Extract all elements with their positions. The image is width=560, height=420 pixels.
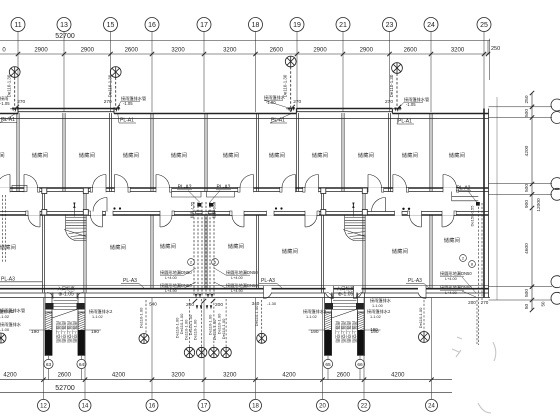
building top inner wall line xyxy=(0,118,489,120)
riser id bubbles xyxy=(188,259,195,266)
svg-text:500: 500 xyxy=(524,289,530,297)
bottom axis bubble 20 xyxy=(317,399,329,411)
riser arrows at 290.7 xyxy=(288,108,290,112)
svg-text:16: 16 xyxy=(148,22,156,29)
grid line 25 xyxy=(483,32,485,113)
upper room wall at grid 24 xyxy=(429,113,431,192)
terrace door opening 333.5 xyxy=(326,286,334,294)
svg-text:De110-1.30: De110-1.30 xyxy=(283,74,288,97)
axis bubble 21 xyxy=(336,18,350,32)
dim 2600 between 23-24 xyxy=(387,52,391,56)
left edge corridor alcove xyxy=(12,186,27,192)
svg-text:540: 540 xyxy=(149,302,157,307)
axis bubble 11 xyxy=(11,18,25,32)
stairwell east wall right xyxy=(362,192,364,293)
east single drain stack xyxy=(261,300,263,333)
upper room wall at grid 15 xyxy=(108,113,110,192)
door opening upper room hinge 443 xyxy=(443,187,457,192)
svg-text:储藏间: 储藏间 xyxy=(171,151,187,159)
south wall lower rooms xyxy=(0,288,489,290)
svg-text:52700: 52700 xyxy=(55,385,75,392)
svg-text:L+4.90: L+4.90 xyxy=(445,291,457,295)
grid line 24 xyxy=(430,32,432,113)
svg-text:⊕-1.05: ⊕-1.05 xyxy=(58,292,74,298)
overall dim line 52700 top xyxy=(0,40,490,42)
dim 2900 between 19-21 xyxy=(295,52,299,56)
small bubbles 63 64 65 66 xyxy=(48,356,50,360)
svg-text:14: 14 xyxy=(82,404,89,410)
svg-text:3200: 3200 xyxy=(171,373,185,379)
door lower room hinge 305 xyxy=(304,211,306,227)
upper room wall at grid 19 xyxy=(295,113,297,192)
svg-text:270: 270 xyxy=(385,99,393,105)
terrace outer line xyxy=(0,297,490,299)
door opening upper room hinge 295.5 xyxy=(282,187,296,192)
svg-text:52700: 52700 xyxy=(55,33,75,40)
upper room wall at grid 18 xyxy=(255,113,257,192)
riser leader diagonals xyxy=(188,191,200,203)
bottom dim 4200 xyxy=(41,378,45,382)
svg-text:PL-A1: PL-A1 xyxy=(271,118,285,124)
svg-text:66: 66 xyxy=(357,362,363,368)
axis bubble 15 xyxy=(104,18,118,32)
svg-text:PL-A3: PL-A3 xyxy=(123,278,137,284)
bottom axis bubble 22 xyxy=(358,399,370,411)
svg-text:标高-1.55: 标高-1.55 xyxy=(212,202,217,218)
door upper room hinge 253.5 xyxy=(253,175,255,193)
svg-text:接圆形地漏DN50: 接圆形地漏DN50 xyxy=(160,269,192,276)
svg-text:2600: 2600 xyxy=(270,48,284,54)
stairwell east wall left xyxy=(83,192,85,293)
svg-text:4200: 4200 xyxy=(524,145,530,156)
svg-text:储藏间: 储藏间 xyxy=(282,247,298,255)
axis bubble 18 xyxy=(249,18,263,32)
svg-text:200: 200 xyxy=(215,302,223,308)
stair break line at 323.6 xyxy=(343,230,366,237)
svg-text:1-1.02: 1-1.02 xyxy=(92,315,103,319)
porch door arc east 324.5 xyxy=(357,293,363,299)
svg-text:De110-1.30: De110-1.30 xyxy=(389,74,394,97)
door lower room hinge 40 xyxy=(39,211,41,227)
svg-text:L+4.00: L+4.00 xyxy=(231,276,243,280)
riser wall stub at 14.7 xyxy=(10,108,19,110)
right end riser basin xyxy=(452,192,479,201)
lower room wall x=206 xyxy=(204,215,206,289)
stair winder treads at 323.6 xyxy=(345,231,366,241)
bottom grid line 18 xyxy=(255,298,257,400)
svg-text:270: 270 xyxy=(481,300,489,305)
svg-text:4200: 4200 xyxy=(391,373,405,379)
cleanout circles center row xyxy=(184,347,194,357)
svg-text:-1.05: -1.05 xyxy=(406,102,416,107)
door lower room hinge 244 xyxy=(243,211,245,227)
svg-text:12: 12 xyxy=(40,404,47,410)
svg-text:间: 间 xyxy=(0,151,5,159)
svg-text:接雨篷排水2: 接雨篷排水2 xyxy=(0,308,15,315)
svg-text:接圆形地漏DN50: 接圆形地漏DN50 xyxy=(226,269,258,276)
axis bubble 16 xyxy=(145,18,159,32)
svg-text:雨篷上空雨: 雨篷上空雨 xyxy=(55,321,62,343)
svg-text:2900: 2900 xyxy=(360,48,374,54)
riser arrows at south wall xyxy=(195,294,197,298)
lower room wall x=152 xyxy=(150,215,152,289)
door opening upper room hinge 106 xyxy=(93,187,107,192)
svg-text:-1.30: -1.30 xyxy=(267,301,277,306)
bottom grid line 12 xyxy=(43,298,45,400)
svg-text:储藏间: 储藏间 xyxy=(123,151,139,159)
axis bubble 23 xyxy=(383,18,397,32)
stair entry door arc left xyxy=(106,198,108,212)
axis bubble 24 xyxy=(424,18,438,32)
left room sill line xyxy=(0,281,42,283)
door lower room hinge 160 xyxy=(159,211,161,227)
svg-text:3200: 3200 xyxy=(223,48,237,54)
canopy edge line at 45 xyxy=(52,309,78,318)
svg-text:PL-A1: PL-A1 xyxy=(398,119,412,125)
svg-text:雨篷上空雨: 雨篷上空雨 xyxy=(334,321,341,343)
corridor dots pair 2 xyxy=(275,207,277,209)
terrace door hinge 426 xyxy=(425,286,427,299)
grid line 17 xyxy=(203,32,205,113)
bottom axis bubble 12 xyxy=(38,399,50,411)
right end riser pipes xyxy=(478,203,480,345)
lower room wall x=431 xyxy=(429,215,431,289)
stair entry door arc right xyxy=(385,198,387,212)
svg-text:储藏间: 储藏间 xyxy=(449,151,465,159)
corridor dots pair 3 xyxy=(402,208,404,210)
west single drain stack xyxy=(145,300,147,333)
top vent stack at x=397 xyxy=(392,63,403,74)
svg-text:200: 200 xyxy=(468,300,476,305)
dim 2600 between 18-19 xyxy=(253,52,257,56)
axis bubble 17 xyxy=(197,18,211,32)
door upper room hinge 443 xyxy=(442,175,444,193)
stair flight treads at 323.6 xyxy=(345,215,366,231)
right end leader diagonal xyxy=(468,191,477,203)
svg-text:雨篷上空雨: 雨篷上空雨 xyxy=(71,321,78,343)
porch side wall outlines 45 xyxy=(44,293,46,313)
svg-text:1-1.02: 1-1.02 xyxy=(370,315,381,319)
stairwell west wall right xyxy=(320,192,322,293)
dim 2900 between 13-15 xyxy=(62,52,66,56)
svg-text:2600: 2600 xyxy=(125,48,139,54)
svg-text:25: 25 xyxy=(480,22,488,29)
door opening lower room hinge 102.5 xyxy=(91,211,103,216)
svg-text:250: 250 xyxy=(491,46,500,52)
svg-text:L+4.00: L+4.00 xyxy=(445,277,457,281)
terrace door hinge 263.5 xyxy=(263,286,265,299)
corridor north wall xyxy=(0,187,489,189)
corridor south wall openings xyxy=(106,211,114,216)
svg-text:-1.05: -1.05 xyxy=(123,101,133,106)
stair direction arrow at 323.6 xyxy=(352,206,354,217)
entry porch steps at 45 xyxy=(46,301,85,310)
upper room wall at grid 17 xyxy=(204,113,206,192)
building top outer wall recessed section A2 xyxy=(296,108,392,110)
svg-text:雨篷上空雨: 雨篷上空雨 xyxy=(66,321,73,343)
south wall sill line xyxy=(0,285,489,287)
door opening upper room hinge 368 xyxy=(368,187,382,192)
riser arrows at 397 xyxy=(394,108,396,112)
riser arrows at 14.7 xyxy=(12,108,14,112)
svg-text:2600: 2600 xyxy=(337,373,351,379)
stairwell west wall left xyxy=(41,192,43,293)
svg-text:储藏间: 储藏间 xyxy=(110,243,126,251)
svg-text:接雨篷排水2: 接雨篷排水2 xyxy=(89,308,113,315)
axis bubble 19 xyxy=(290,18,304,32)
door opening lower room hinge 442 xyxy=(442,211,454,216)
svg-text:雨篷上空雨: 雨篷上空雨 xyxy=(351,321,358,343)
svg-text:270: 270 xyxy=(104,99,112,105)
svg-text:雨篷上空雨: 雨篷上空雨 xyxy=(340,321,347,343)
grid line 21 xyxy=(342,32,344,113)
dim 3200 between 24-25 xyxy=(429,52,433,56)
bottom dim 4200 xyxy=(429,378,433,382)
svg-text:1-1.00: 1-1.00 xyxy=(372,304,383,308)
svg-text:接圆形地漏DN50: 接圆形地漏DN50 xyxy=(440,284,472,291)
svg-text:50: 50 xyxy=(541,301,546,306)
svg-text:18: 18 xyxy=(252,404,259,410)
hatched stair wall east at 45 xyxy=(78,312,85,356)
svg-text:PL-A3: PL-A3 xyxy=(408,278,422,284)
svg-text:标高-1.55: 标高-1.55 xyxy=(190,202,195,218)
bottom axis bubble 17 xyxy=(198,399,210,411)
top vent stack at x=115.7 xyxy=(110,67,121,78)
dim 3200 between 17-18 xyxy=(202,52,206,56)
riser basin east xyxy=(207,192,235,198)
stair direction arrow at 44.6 xyxy=(73,206,75,217)
entry porch steps at 324.5 xyxy=(325,301,364,310)
door opening upper room hinge 392.9 xyxy=(393,187,407,192)
svg-text:PL-A1: PL-A1 xyxy=(120,118,134,124)
svg-text:雨篷上空雨: 雨篷上空雨 xyxy=(345,321,352,343)
svg-text:De110-1.00: De110-1.00 xyxy=(418,307,423,328)
grid line 15 xyxy=(110,32,112,113)
bottom dim 4200 xyxy=(320,378,324,382)
grid line 19 xyxy=(296,32,298,113)
svg-text:-1.02: -1.02 xyxy=(0,314,10,319)
svg-text:15: 15 xyxy=(107,22,115,29)
riser wall stub at 290.7 xyxy=(286,108,295,110)
right top 250 dim xyxy=(489,39,491,80)
hatched stair wall west at 45 xyxy=(45,312,52,356)
right letter bubbles xyxy=(551,99,560,111)
svg-text:4200: 4200 xyxy=(282,373,296,379)
terrace door opening 353.5 xyxy=(354,286,362,294)
svg-text:2900: 2900 xyxy=(81,48,95,54)
svg-text:22: 22 xyxy=(361,404,368,410)
svg-text:PL-A3: PL-A3 xyxy=(1,277,15,283)
bottom axis bubble 14 xyxy=(79,399,91,411)
svg-text:24: 24 xyxy=(428,404,435,410)
dim 3200 between 16-17 xyxy=(150,52,154,56)
svg-text:储藏间: 储藏间 xyxy=(160,242,176,250)
door upper room hinge 10 xyxy=(9,175,11,193)
bottom grid line 16 xyxy=(151,298,153,400)
svg-text:270: 270 xyxy=(293,99,301,105)
bottom axis bubble 18 xyxy=(250,399,262,411)
bottom grid line 24 xyxy=(431,298,433,400)
svg-text:21: 21 xyxy=(339,22,347,29)
hatched stair wall west at 324.5 xyxy=(325,312,332,356)
door opening upper room hinge 318.5 xyxy=(305,187,319,192)
upper room wall at grid 13 xyxy=(62,113,64,192)
svg-text:270: 270 xyxy=(17,99,25,105)
door upper room hinge 318.5 xyxy=(318,175,320,193)
svg-text:储藏间: 储藏间 xyxy=(358,151,374,159)
svg-text:储藏间: 储藏间 xyxy=(402,151,418,159)
upper room wall at grid 11 xyxy=(16,113,18,192)
riser arrows at 115.7 xyxy=(113,108,115,112)
door opening upper room hinge 10 xyxy=(0,187,10,192)
porch door arc west 324.5 xyxy=(327,293,333,299)
svg-text:50: 50 xyxy=(524,304,530,310)
dark landing blocks at 324.5 xyxy=(325,330,332,355)
riser wall stub at 397 xyxy=(393,108,402,110)
door opening lower room hinge 421.5 xyxy=(410,211,422,216)
riser wall stub at 115.7 xyxy=(111,108,120,110)
svg-text:接雨篷排水: 接雨篷排水 xyxy=(370,297,392,304)
axis bubble 25 xyxy=(477,18,491,32)
svg-text:De110-1.00: De110-1.00 xyxy=(193,319,198,340)
right end id bubbles xyxy=(460,255,467,262)
door opening lower room hinge 244 xyxy=(232,211,244,216)
dark landing blocks at 45 xyxy=(45,330,52,355)
door opening upper room hinge 24 xyxy=(24,187,38,192)
upper room wall at grid 23 xyxy=(387,113,389,192)
lower room wall x=257.5 xyxy=(255,215,257,289)
bottom dim 2600 xyxy=(362,378,366,382)
stairwell pilasters at 44.6 xyxy=(42,188,47,194)
svg-text:500: 500 xyxy=(524,109,530,117)
svg-text:-1.00: -1.00 xyxy=(0,327,10,332)
upper room wall at grid 21 xyxy=(341,113,343,192)
door upper room hinge 24 xyxy=(23,175,25,193)
svg-text:13: 13 xyxy=(60,22,68,29)
svg-text:17: 17 xyxy=(200,22,208,29)
svg-text:2600: 2600 xyxy=(58,373,72,379)
dim 250 right of 25 xyxy=(487,41,489,55)
svg-text:18: 18 xyxy=(252,22,260,29)
svg-text:2900: 2900 xyxy=(34,48,48,54)
right outer wall xyxy=(483,109,485,298)
svg-text:接雨篷排水2: 接雨篷排水2 xyxy=(303,308,327,315)
grid line 23 xyxy=(389,32,391,113)
svg-text:储藏间: 储藏间 xyxy=(223,151,239,159)
svg-text:2900: 2900 xyxy=(313,48,327,54)
hatched stair wall east at 324.5 xyxy=(358,312,365,356)
top wall step verticals xyxy=(17,109,19,114)
right end drain stack xyxy=(476,300,478,345)
door lower room hinge 102.5 xyxy=(102,211,104,227)
svg-text:储藏间: 储藏间 xyxy=(269,151,285,159)
top vent stack at x=290.7 xyxy=(285,56,296,67)
stairwell pilasters at 323.6 xyxy=(321,188,326,194)
svg-text:12000: 12000 xyxy=(536,198,542,212)
top dimension line xyxy=(0,53,490,55)
right vertical dimension line xyxy=(531,93,533,310)
door opening lower room hinge 160 xyxy=(160,211,172,216)
terrace door hinge 333.5 xyxy=(333,286,335,299)
door upper room hinge 114.5 xyxy=(114,175,116,193)
svg-text:20: 20 xyxy=(319,404,326,410)
top axis grid bubbles and dimension lines xyxy=(0,18,500,113)
door upper room hinge 156 xyxy=(155,175,157,193)
svg-text:De110-1.30: De110-1.30 xyxy=(108,74,113,97)
svg-text:1-1.02: 1-1.02 xyxy=(306,315,317,319)
riser arrow row 2 xyxy=(196,305,198,309)
bottom dim 4200 xyxy=(150,378,154,382)
axis bubble 13 xyxy=(57,18,71,32)
svg-text:接圆形地漏DN50: 接圆形地漏DN50 xyxy=(226,282,258,289)
right boundary line xyxy=(496,97,498,300)
svg-text:L+4.90: L+4.90 xyxy=(231,289,243,293)
door lower room hinge 442 xyxy=(441,211,443,227)
svg-text:4600: 4600 xyxy=(524,243,530,254)
bottom dimension line xyxy=(0,379,452,381)
svg-text:190: 190 xyxy=(370,327,378,332)
door opening upper room hinge 114.5 xyxy=(115,187,129,192)
svg-text:储藏间: 储藏间 xyxy=(444,236,460,244)
svg-text:De110-1.30: De110-1.30 xyxy=(7,74,12,97)
porch door arc east 45 xyxy=(77,293,83,299)
svg-text:接圆形地漏DN50: 接圆形地漏DN50 xyxy=(440,270,472,277)
porch side wall outlines 324.5 xyxy=(324,293,326,313)
svg-text:3200: 3200 xyxy=(171,48,185,54)
bottom axis bubble 16 xyxy=(146,399,158,411)
svg-text:雨篷上空雨: 雨篷上空雨 xyxy=(60,321,67,343)
grid line 18 xyxy=(255,32,257,113)
svg-text:De150-0.55: De150-0.55 xyxy=(470,205,475,227)
svg-text:11: 11 xyxy=(14,22,21,29)
svg-text:17: 17 xyxy=(201,404,208,410)
door opening upper room hinge 156 xyxy=(156,187,170,192)
left edge cleanout xyxy=(0,333,6,343)
svg-text:2600: 2600 xyxy=(404,48,418,54)
corridor south wall xyxy=(0,211,489,213)
svg-text:3200: 3200 xyxy=(451,48,465,54)
central riser dashed pipes xyxy=(193,202,195,297)
terrace door opening 263.5 xyxy=(264,286,272,294)
bottom grid line 22 xyxy=(363,298,365,400)
stair winder treads at 44.6 xyxy=(66,231,87,241)
svg-text:储藏间: 储藏间 xyxy=(79,151,95,159)
svg-text:De110-1.00: De110-1.00 xyxy=(254,305,259,326)
svg-text:储藏间: 储藏间 xyxy=(312,151,328,159)
door opening lower room hinge 40 xyxy=(28,211,40,216)
grid line 13 xyxy=(63,32,65,113)
svg-text:19: 19 xyxy=(293,22,301,29)
bottom dim 3200 xyxy=(253,378,257,382)
dim 2600 between 15-16 xyxy=(108,52,112,56)
svg-text:250: 250 xyxy=(524,95,530,103)
svg-text:3200: 3200 xyxy=(223,373,237,379)
riser junction boxes xyxy=(197,203,201,207)
canopy edge line at 324.5 xyxy=(332,309,358,318)
door lower room hinge 421.5 xyxy=(421,211,423,227)
svg-text:500: 500 xyxy=(524,184,530,192)
svg-text:16: 16 xyxy=(149,404,156,410)
building top outer wall section B3 xyxy=(392,113,488,115)
svg-text:储藏间: 储藏间 xyxy=(32,151,48,159)
svg-text:L+4.00: L+4.00 xyxy=(165,276,177,280)
grid line 16 xyxy=(151,32,153,113)
building top outer wall section B2 xyxy=(114,113,296,115)
svg-text:4200: 4200 xyxy=(3,373,17,379)
svg-text:4200: 4200 xyxy=(112,373,126,379)
door opening upper room hinge 253.5 xyxy=(240,187,254,192)
svg-text:900: 900 xyxy=(524,200,530,208)
